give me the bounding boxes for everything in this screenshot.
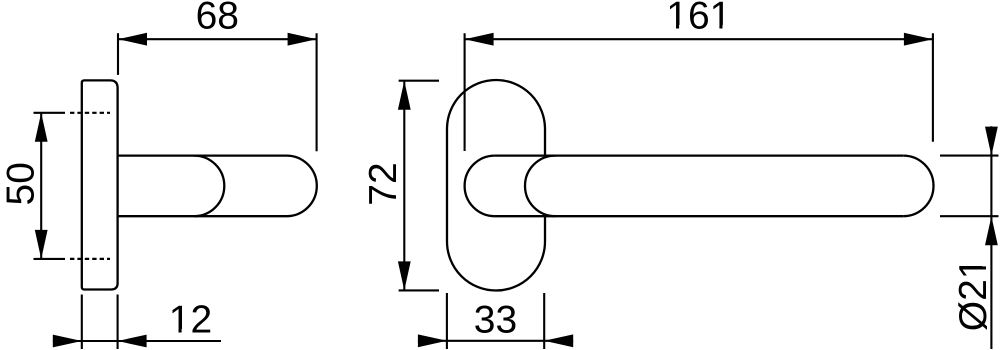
lever neck cap front view: [465, 156, 495, 217]
arrow 50 bottom: [35, 230, 48, 259]
svg-text:Ø21: Ø21: [952, 258, 995, 332]
dim 33 extension lines: [446, 293, 448, 349]
svg-text:50: 50: [0, 162, 43, 205]
arrow 33 left: [418, 334, 447, 347]
arrow 21 top: [985, 127, 998, 156]
lever grip right end cap front view: [903, 156, 933, 217]
screw hole centerline top: [70, 112, 110, 114]
arrow 72 top: [398, 81, 411, 110]
oval rose front view: [447, 80, 545, 291]
lever grip bottom edge front view: [495, 215, 903, 217]
arrow 161 left: [465, 33, 494, 46]
svg-text:161: 161: [666, 0, 731, 38]
arrow 50 top: [35, 113, 48, 142]
dim 33 line: [418, 340, 573, 342]
rose plate side view: [82, 80, 118, 289]
dim 50 line: [40, 113, 42, 259]
dim 72 line: [403, 81, 405, 291]
arrow 161 right: [904, 33, 933, 46]
svg-text:68: 68: [196, 0, 239, 38]
arrow 68 left: [118, 33, 147, 46]
arrow 33 right: [544, 334, 573, 347]
lever side view: [118, 156, 317, 217]
arrow 68 right: [288, 33, 317, 46]
dim 161 extension lines: [464, 33, 466, 151]
dim 50 extension lines: [34, 112, 66, 114]
lever grip top edge front view: [495, 154, 903, 156]
svg-text:33: 33: [474, 299, 517, 342]
dim text 21 diameter: [952, 258, 995, 332]
arrow 72 bottom: [398, 261, 411, 290]
dim 72 extension lines: [399, 80, 439, 82]
arrow 12 left: [53, 335, 82, 348]
lever neck transition arc side view: [194, 156, 224, 217]
screw hole centerline bottom: [70, 258, 110, 260]
arrow 12 right: [118, 335, 147, 348]
svg-text:72: 72: [362, 162, 405, 205]
dim 161 line: [465, 38, 933, 40]
dim 68 extension lines: [117, 33, 119, 75]
svg-text:12: 12: [169, 299, 212, 342]
dim 68 line: [118, 38, 317, 40]
dim 21 extension lines: [940, 155, 999, 157]
lever grip left cap arc front view: [525, 156, 555, 217]
dim 12 extension lines: [81, 295, 83, 350]
dim 12 line: [53, 340, 221, 342]
dim 21 line: [990, 126, 992, 349]
arrow 21 bottom: [985, 216, 998, 245]
